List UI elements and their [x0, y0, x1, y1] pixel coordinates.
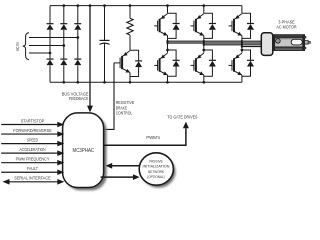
wire/arrow: speed input [1, 143, 58, 145]
svg-text:3-PHASE: 3-PHASE [278, 19, 295, 24]
svg-text:AC MOTOR: AC MOTOR [276, 25, 296, 30]
node: phase ribbon junction [241, 40, 243, 42]
svg-text:PWM’s: PWM’s [146, 135, 161, 140]
node: phase ribbon junction [203, 40, 205, 42]
motor terminal box [261, 33, 273, 56]
node: inverter column 2 top rail junction [202, 4, 205, 7]
diode D2 (upper bridge) [60, 23, 67, 25]
node: bottom rail junction [76, 81, 79, 84]
node: resistor top junction [129, 4, 132, 7]
transistor Q6 low-side IGBT [234, 53, 242, 59]
svg-text:START/STOP: START/STOP [21, 118, 45, 123]
wire: bus voltage feedback [89, 6, 91, 107]
node: cap top junction [103, 4, 106, 7]
wire: motor phase lead [168, 40, 262, 42]
diode D5 (lower bridge) [60, 58, 67, 60]
arrow: to gate drives [183, 122, 189, 129]
motor shaft [305, 41, 309, 45]
wire: motor phase lead [168, 42, 262, 44]
node: phase3-column1 junction [49, 52, 52, 55]
motor knob [276, 39, 281, 44]
transistor Q2 high-side IGBT [196, 14, 204, 20]
node: phase1-column3 junction [76, 36, 79, 39]
wire: inverter column 3 upper [241, 6, 243, 14]
transistor Q3 high-side IGBT [234, 14, 242, 20]
node: phase ribbon junction [241, 44, 243, 46]
motor nameplate slot [291, 39, 302, 45]
diode D10 high-side freewheel [242, 13, 251, 23]
transistor Q1 high-side IGBT [160, 14, 168, 20]
node: phase2-column2 junction [62, 44, 65, 47]
wire: AC phase 2 [29, 45, 64, 47]
transistor Q4 low-side IGBT [160, 53, 168, 59]
wire: bridge column 1 [49, 6, 51, 24]
motor body [273, 35, 305, 51]
svg-text:(OPTIONAL): (OPTIONAL) [147, 174, 165, 179]
node: cap bottom junction [103, 81, 106, 84]
wire: inverter column 1 middle [167, 36, 169, 53]
passive network ellipse shadow [141, 155, 175, 187]
diode D13 low-side freewheel [242, 50, 251, 60]
wire/arrow: network to MC3PHAC [112, 165, 139, 167]
diode D3 (upper bridge) [74, 23, 81, 25]
wire: DC+ top rail [50, 5, 242, 7]
wire: motor phase lead [204, 44, 262, 46]
svg-text:ACCELERATION: ACCELERATION [19, 147, 45, 152]
svg-text:FAULT: FAULT [27, 166, 38, 171]
svg-text:AC IN: AC IN [15, 42, 20, 51]
node: phase ribbon junction [241, 45, 243, 47]
node: phase ribbon junction [166, 40, 168, 42]
diode D6 (lower bridge) [74, 58, 81, 60]
node: bottom rail junction [62, 81, 65, 84]
node: top rail junction [62, 4, 65, 7]
wire/arrow: MC3PHAC to network [101, 176, 134, 178]
svg-text:CONTROL: CONTROL [116, 111, 133, 116]
svg-text:SERIAL INTERFACE: SERIAL INTERFACE [14, 176, 51, 181]
transistor Q7 brake IGBT [122, 51, 130, 57]
wire: inverter column 1 upper [167, 6, 169, 14]
diode D12 low-side freewheel [204, 50, 213, 60]
passive initialization network ellipse [139, 153, 173, 185]
wire: AC phase 1 [29, 37, 78, 39]
svg-text:FEEDBACK: FEEDBACK [69, 96, 89, 101]
wire/arrow: fault input [1, 171, 58, 173]
diode D8 high-side freewheel [168, 13, 177, 23]
wire/arrow: pwm frequency input [1, 162, 58, 164]
wire/arrow: acceleration input [1, 152, 58, 154]
wire: inverter column 2 middle [203, 36, 205, 53]
diode D4 (lower bridge) [47, 58, 54, 60]
node: top rail junction [76, 4, 79, 7]
wire: PWM outputs to gate drives [104, 128, 186, 145]
resistor R1 brake [129, 6, 131, 19]
node: low diode tap column 2 [202, 49, 205, 52]
wire/arrow: start/stop input [1, 124, 58, 126]
svg-text:TO GATE DRIVES: TO GATE DRIVES [167, 115, 197, 120]
motor fins [305, 36, 307, 38]
wire: brake emitter to DC- [129, 73, 131, 83]
wire/arrow: forward/reverse input [1, 133, 58, 135]
node: brake emitter junction [129, 81, 132, 84]
wire/arrow: serial interface input [9, 181, 59, 183]
arrow: feedback into MC3PHAC [87, 106, 93, 113]
wire: bridge column 2 [63, 6, 65, 24]
node: low diode tap column 3 [241, 49, 244, 52]
svg-text:FORWARD/REVERSE: FORWARD/REVERSE [13, 128, 51, 133]
node: phase ribbon junction [203, 44, 205, 46]
diode D11 low-side freewheel [168, 50, 177, 60]
node: inverter column 1 top rail junction [166, 4, 169, 7]
svg-text:SPEED: SPEED [27, 137, 38, 142]
diode D9 high-side freewheel [204, 13, 213, 23]
diode D7 brake freewheel [130, 50, 139, 61]
wire: bridge column 3 [77, 6, 79, 24]
wire: inverter column 2 upper [203, 6, 205, 14]
node: feedback tap on DC+ rail [89, 4, 92, 7]
diode D1 (upper bridge) [47, 23, 54, 25]
wire: resistive brake control [103, 63, 114, 129]
wire: inverter column 3 middle [241, 36, 243, 53]
wire: AC phase 3 [29, 52, 50, 54]
svg-text:MC3PHAC: MC3PHAC [73, 148, 95, 154]
node: inverter column 1 bottom rail junction [166, 81, 169, 84]
capacitor C1 bus filter [104, 6, 106, 41]
AC input brace [23, 33, 29, 60]
node: inverter column 2 bottom rail junction [202, 81, 205, 84]
wire: inverter column 1 lower [167, 75, 169, 82]
wire: motor phase lead [242, 46, 262, 48]
wire: DC- bottom rail [50, 81, 242, 83]
node: phase ribbon junction [241, 42, 243, 44]
transistor Q5 low-side IGBT [196, 53, 204, 59]
node: phase ribbon junction [203, 42, 205, 44]
wire: inverter column 3 lower [241, 75, 243, 82]
MC3PHAC block U1 [63, 113, 104, 188]
MC3PHAC block U1 shadow [65, 116, 106, 191]
wire: inverter column 2 lower [203, 75, 205, 82]
node: low diode tap column 1 [166, 49, 169, 52]
node: phase ribbon junction [166, 42, 168, 44]
svg-text:PWM FREQUENCY: PWM FREQUENCY [16, 157, 50, 162]
corner: DC+ rail to column 3 [241, 5, 243, 7]
